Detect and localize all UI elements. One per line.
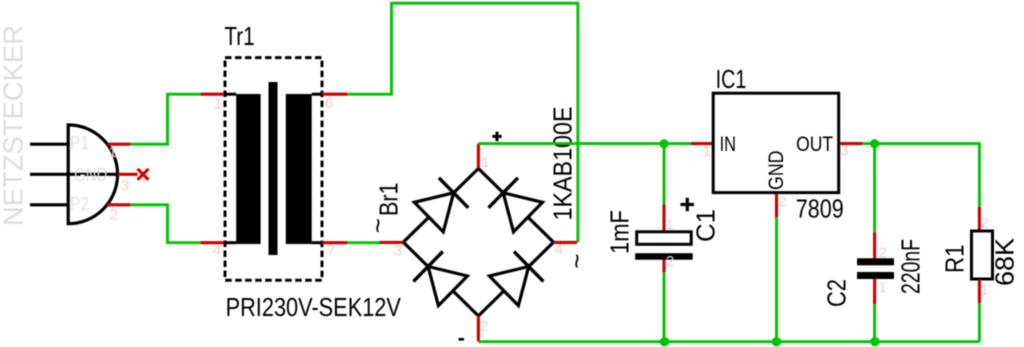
C1 positive plate (637, 232, 692, 245)
R1 bottom wire (978, 303, 981, 342)
C2 bottom wire (873, 304, 876, 342)
svg-text:PRI230V-SEK12V: PRI230V-SEK12V (226, 292, 402, 322)
svg-text:Br1: Br1 (374, 183, 404, 217)
C2 plate top (857, 258, 894, 265)
C1 bottom wire (663, 273, 666, 342)
svg-text:IC1: IC1 (716, 64, 747, 94)
capacitor C2 top wire (873, 144, 876, 233)
svg-text:NETZSTECKER: NETZSTECKER (0, 25, 29, 226)
transformer pin 4 lead (225, 241, 237, 244)
svg-text:2: 2 (110, 207, 118, 224)
bridge rectifier Br1 frame (403, 169, 553, 316)
svg-text:C2: C2 (822, 279, 852, 307)
plug pin P1 lead (30, 143, 68, 146)
minus mark (459, 338, 465, 341)
R1 bottom stub (978, 280, 981, 304)
transformer dashed frame (225, 58, 322, 281)
svg-text:1mF: 1mF (605, 210, 635, 254)
wire transformer pin7 to bridge ~ left (347, 241, 379, 244)
plus mark (492, 132, 501, 141)
svg-text:1KAB100E: 1KAB100E (548, 107, 578, 221)
IC OUT stub (840, 142, 862, 145)
wire plug P1 to transformer pin1 (130, 94, 200, 144)
svg-text:GND: GND (765, 151, 788, 191)
svg-text:GND: GND (74, 165, 107, 185)
connector plug body (68, 125, 117, 224)
svg-text:4: 4 (213, 242, 221, 259)
svg-text:7: 7 (327, 242, 335, 259)
transformer pin 7 lead (312, 241, 323, 244)
bridge ~ left stub (380, 241, 404, 244)
svg-text:3: 3 (121, 178, 129, 195)
svg-text:1: 1 (981, 282, 989, 299)
diode D3 bottom-left (413, 252, 467, 306)
junction C1 top (659, 139, 668, 148)
wire transformer pin6 to bridge ~ right (top route) (347, 3, 578, 242)
diode D4 bottom-right (489, 252, 543, 306)
capacitor C1 top wire (663, 144, 666, 205)
svg-text:3: 3 (840, 143, 848, 160)
transformer pin 6 stub (322, 93, 347, 96)
C1 negative plate (635, 253, 693, 260)
svg-text:OUT: OUT (796, 133, 833, 156)
transformer primary winding (236, 94, 260, 244)
C2 pin 1 stub (873, 279, 876, 305)
bridge - stub (477, 316, 480, 342)
plug pin 1 stub (107, 143, 130, 146)
resistor R1 body (972, 231, 993, 279)
svg-text:3: 3 (394, 243, 402, 260)
diode D1 top-left (414, 178, 468, 232)
svg-text:1: 1 (214, 96, 222, 113)
C1 plus mark (681, 198, 695, 211)
transformer secondary winding (286, 94, 312, 244)
svg-text:68K: 68K (990, 237, 1020, 286)
junction C1 bottom (660, 337, 669, 346)
regulator IC1 body (713, 93, 839, 192)
svg-text:2: 2 (981, 215, 989, 232)
C1 pin 1 stub (662, 204, 665, 230)
wire IC GND to ground rail (775, 217, 778, 341)
svg-text:220nF: 220nF (896, 239, 926, 294)
C2 plate bottom (857, 272, 894, 279)
transformer pin 7 stub (322, 241, 347, 244)
transformer pin 4 stub (201, 241, 224, 244)
svg-text:~: ~ (562, 253, 592, 268)
svg-text:R1: R1 (940, 245, 970, 274)
plug pin P2 lead (30, 203, 68, 206)
svg-text:Tr1: Tr1 (224, 21, 254, 51)
transformer pin 6 lead (312, 93, 323, 96)
IC IN stub (691, 142, 713, 145)
plug pin GND lead (30, 173, 118, 176)
plug pin 2 stub (107, 203, 130, 206)
IC GND stub (775, 194, 778, 217)
transformer pin 1 stub (201, 93, 224, 96)
C1 pin 2 stub (662, 260, 665, 273)
svg-text:2: 2 (666, 253, 674, 270)
svg-text:1: 1 (703, 143, 711, 160)
bridge ~ right stub (554, 241, 578, 244)
svg-text:C1: C1 (691, 209, 721, 242)
svg-text:6: 6 (325, 95, 333, 112)
svg-text:P2: P2 (70, 194, 89, 214)
svg-text:IN: IN (720, 133, 736, 156)
svg-text:P1: P1 (70, 133, 89, 153)
svg-text:2: 2 (480, 318, 488, 335)
C2 pin 2 stub (873, 232, 876, 259)
svg-text:4: 4 (555, 241, 563, 258)
junction C2 top (870, 139, 879, 148)
svg-text:1: 1 (109, 144, 117, 161)
plug pin 3 stub (118, 173, 138, 176)
unconnected X mark (138, 169, 149, 180)
svg-text:2: 2 (778, 193, 786, 210)
wire OUT to right (862, 144, 979, 207)
junction C2 bottom (870, 337, 879, 346)
junction IC GND bottom (772, 337, 781, 346)
svg-text:1: 1 (878, 279, 886, 296)
svg-text:2: 2 (878, 244, 886, 261)
wire bridge + to IC IN (478, 142, 690, 145)
wire plug P2 to transformer pin4 (130, 205, 200, 243)
svg-text:1: 1 (666, 217, 674, 234)
svg-text:7809: 7809 (796, 194, 844, 224)
ground rail wire (478, 340, 979, 343)
R1 top stub (978, 207, 981, 231)
svg-text:1: 1 (481, 154, 489, 171)
bridge + stub (477, 144, 480, 169)
transformer core (269, 82, 278, 255)
diode D2 top-right (489, 178, 543, 232)
transformer pin 1 lead (225, 93, 237, 96)
svg-text:~: ~ (363, 218, 393, 233)
